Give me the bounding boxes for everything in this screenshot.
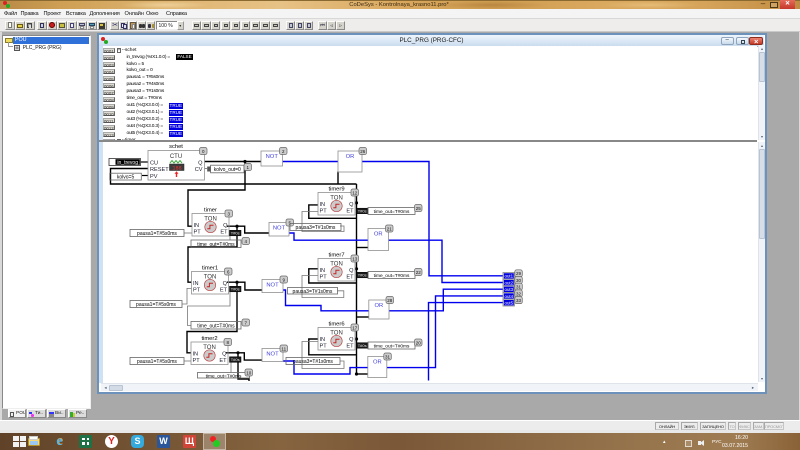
svg-text:26: 26 [360, 149, 366, 154]
svg-text:11: 11 [281, 346, 286, 351]
svg-text:ET: ET [220, 230, 228, 236]
svg-text:T#0s: T#0s [231, 357, 240, 362]
svg-text:pausa3=T#1s0ms: pausa3=T#1s0ms [293, 289, 333, 295]
svg-text:timer2: timer2 [201, 336, 217, 342]
svg-text:29: 29 [516, 271, 522, 276]
svg-text:time_out=T#0ms: time_out=T#0ms [374, 344, 410, 350]
svg-text:RESET: RESET [150, 167, 169, 173]
svg-text:ET: ET [219, 358, 227, 364]
svg-text:OR: OR [374, 232, 383, 238]
svg-text:188: 188 [172, 166, 181, 172]
svg-text:pausa1=T#5s0ms: pausa1=T#5s0ms [137, 359, 177, 365]
svg-text:22: 22 [416, 270, 422, 275]
svg-text:NOT: NOT [266, 352, 279, 358]
svg-text:Q: Q [222, 351, 227, 357]
svg-text:Q: Q [349, 202, 354, 208]
svg-text:pausa1=T#5s0ms: pausa1=T#5s0ms [137, 231, 177, 237]
svg-text:out1: out1 [505, 274, 514, 279]
svg-text:IN: IN [320, 268, 326, 274]
svg-text:IN: IN [193, 351, 199, 357]
svg-text:schet: schet [169, 144, 183, 150]
svg-text:PT: PT [194, 230, 202, 236]
svg-text:30: 30 [516, 278, 522, 283]
svg-text:ET: ET [220, 288, 228, 294]
svg-text:CTU: CTU [170, 154, 182, 160]
svg-text:ET: ET [346, 344, 354, 350]
svg-text:PV: PV [150, 174, 158, 180]
svg-text:20: 20 [416, 340, 422, 345]
svg-text:timer6: timer6 [328, 322, 344, 328]
svg-text:25: 25 [416, 206, 422, 211]
svg-text:pausa1=T#5s0ms: pausa1=T#5s0ms [136, 302, 176, 308]
svg-text:time_out=T#0ms: time_out=T#0ms [197, 323, 235, 329]
svg-text:IN: IN [320, 202, 326, 208]
svg-text:Q: Q [198, 160, 203, 166]
svg-text:PT: PT [193, 288, 201, 294]
svg-text:10: 10 [246, 370, 252, 375]
svg-text:31: 31 [385, 354, 391, 359]
svg-text:ET: ET [346, 275, 354, 281]
svg-text:CV: CV [195, 167, 203, 173]
svg-text:17: 17 [352, 325, 358, 330]
svg-text:Q: Q [223, 223, 228, 229]
svg-text:timer7: timer7 [328, 253, 344, 259]
svg-text:OR: OR [375, 303, 384, 309]
svg-text:time_out=T#0ms: time_out=T#0ms [374, 273, 410, 279]
svg-text:timer9: timer9 [328, 187, 344, 193]
svg-text:NOT: NOT [273, 226, 286, 232]
svg-text:pausa3=T#1s0ms: pausa3=T#1s0ms [293, 359, 333, 365]
svg-text:time_out=T#0ms: time_out=T#0ms [206, 373, 242, 379]
svg-text:time_out=T#0ms: time_out=T#0ms [374, 209, 410, 215]
svg-text:timer1: timer1 [202, 266, 218, 272]
svg-text:kolvo_out=0: kolvo_out=0 [214, 167, 241, 173]
svg-text:12: 12 [352, 190, 358, 195]
svg-text:IN: IN [193, 281, 199, 287]
svg-text:PT: PT [320, 344, 328, 350]
svg-text:CU: CU [150, 160, 158, 166]
svg-text:pausa3=T#1s0ms: pausa3=T#1s0ms [296, 225, 336, 231]
svg-text:OR: OR [373, 360, 382, 366]
svg-text:kolvo=5: kolvo=5 [117, 175, 135, 181]
svg-text:33: 33 [516, 298, 522, 303]
svg-text:IN: IN [320, 337, 326, 343]
svg-text:time_out=T#0ms: time_out=T#0ms [197, 242, 235, 248]
svg-text:T#0s: T#0s [358, 273, 367, 278]
svg-text:PT: PT [320, 209, 328, 215]
svg-text:21: 21 [387, 226, 393, 231]
svg-text:32: 32 [516, 291, 522, 296]
svg-text:timer: timer [204, 208, 217, 214]
svg-text:NOT: NOT [266, 283, 279, 289]
svg-text:Q: Q [349, 268, 354, 274]
svg-text:IN: IN [194, 223, 200, 229]
svg-text:OR: OR [346, 154, 355, 160]
svg-text:T#0s: T#0s [231, 231, 240, 236]
svg-text:PT: PT [320, 275, 328, 281]
svg-text:out3: out3 [505, 287, 514, 292]
svg-text:T#0s: T#0s [358, 343, 367, 348]
svg-text:in_trevog: in_trevog [117, 160, 138, 166]
svg-text:Q: Q [223, 281, 228, 287]
svg-text:Q: Q [349, 337, 354, 343]
svg-text:13: 13 [352, 256, 358, 261]
svg-text:31: 31 [516, 285, 522, 290]
svg-text:PT: PT [193, 358, 201, 364]
svg-text:T#0s: T#0s [358, 209, 367, 214]
svg-text:T#0s: T#0s [231, 287, 240, 292]
svg-text:out5: out5 [505, 301, 514, 306]
svg-text:28: 28 [387, 298, 393, 303]
svg-text:out4: out4 [505, 294, 514, 299]
svg-text:ET: ET [346, 209, 354, 215]
svg-text:out2: out2 [505, 280, 514, 285]
svg-text:NOT: NOT [266, 154, 279, 160]
